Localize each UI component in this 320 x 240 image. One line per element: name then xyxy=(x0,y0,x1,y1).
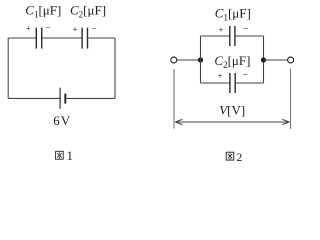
capacitor C1 (figure1) plates xyxy=(36,28,41,49)
battery positive plate (long) xyxy=(59,88,61,109)
wire: figure1 right vertical xyxy=(114,38,116,98)
wire: figure1 bottom segment left xyxy=(8,97,59,99)
capacitor C2 (figure2) plates xyxy=(230,73,235,93)
terminal circle left xyxy=(171,57,177,63)
capacitor C1 (figure2) plates xyxy=(230,26,235,46)
wire: figure2 top branch left xyxy=(201,35,230,37)
svg-text:C1[μF]: C1[μF] xyxy=(215,5,251,22)
svg-text:−: − xyxy=(45,24,50,34)
wire: figure2 middle right (node to terminal) xyxy=(264,59,288,61)
svg-text:V[V]: V[V] xyxy=(219,102,245,117)
wire: figure1 top segment middle xyxy=(42,37,81,39)
svg-text:−: − xyxy=(243,71,248,81)
node dot left junction xyxy=(198,57,203,62)
terminal circle right xyxy=(288,57,294,63)
svg-text:+: + xyxy=(217,72,222,82)
svg-text:1: 1 xyxy=(67,149,73,163)
capacitor C2 (figure1) plates xyxy=(82,28,87,49)
svg-text:+: + xyxy=(26,25,31,35)
battery negative plate (short thick) xyxy=(64,94,66,104)
wire: figure1 top segment right xyxy=(88,37,115,39)
wire: figure1 left vertical xyxy=(7,38,9,98)
svg-text:+: + xyxy=(218,26,223,36)
svg-text:−: − xyxy=(91,25,96,35)
caption figure2: kanji ZU drawn xyxy=(226,152,234,160)
wire: figure2 right vertical xyxy=(263,36,265,83)
svg-text:C2[μF]: C2[μF] xyxy=(70,2,106,19)
svg-text:+: + xyxy=(72,25,77,35)
wire: figure2 bottom branch left xyxy=(201,82,230,84)
node dot right junction xyxy=(261,57,266,62)
wire: figure2 left vertical xyxy=(200,36,202,83)
svg-text:−: − xyxy=(243,25,248,35)
wire: figure1 top segment left xyxy=(8,37,36,39)
dimension arrow V[V] double-headed xyxy=(175,119,289,124)
measurement extension line right xyxy=(290,69,292,129)
wire: figure2 top branch right xyxy=(236,35,264,37)
wire: figure2 bottom branch right xyxy=(236,82,264,84)
svg-text:2: 2 xyxy=(236,150,242,164)
caption figure1: kanji ZU drawn xyxy=(56,151,64,159)
svg-text:C1[μF]: C1[μF] xyxy=(25,2,61,19)
svg-text:6V: 6V xyxy=(53,113,70,128)
measurement extension line left xyxy=(173,69,175,129)
svg-text:C2[μF]: C2[μF] xyxy=(214,53,250,70)
wire: figure1 bottom segment right xyxy=(66,97,115,99)
wire: figure2 middle left (terminal to node) xyxy=(177,59,201,61)
